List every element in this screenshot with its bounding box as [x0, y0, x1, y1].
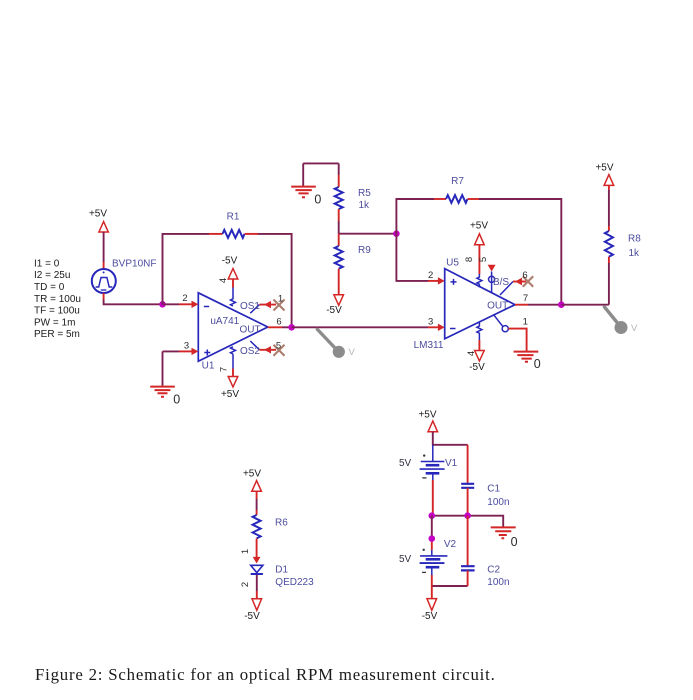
svg-text:1k: 1k	[629, 248, 641, 259]
svg-text:R6: R6	[275, 518, 288, 529]
svg-text:-5V: -5V	[222, 255, 238, 266]
svg-text:TD = 0: TD = 0	[34, 282, 65, 293]
resistor R7	[434, 176, 479, 203]
U5 pin 8 lead	[477, 245, 482, 288]
svg-text:R9: R9	[358, 245, 371, 256]
svg-text:I1 = 0: I1 = 0	[34, 258, 60, 269]
caption	[35, 665, 496, 685]
svg-text:V2: V2	[444, 539, 457, 550]
battery V1 5V	[399, 445, 458, 480]
U5 pin 5 stub with marker	[488, 265, 496, 293]
svg-text:1: 1	[240, 549, 251, 554]
resistor R9	[335, 234, 372, 295]
svg-text:5V: 5V	[399, 458, 412, 469]
power -5V at D1	[244, 599, 261, 622]
wire node B down to U5 pin 2	[396, 234, 428, 281]
svg-text:V: V	[349, 347, 356, 358]
U5 pin 6 B/S lead	[500, 278, 526, 295]
power -5V at U5 pin 4	[469, 351, 485, 374]
no-connect X at U5 pin 6	[523, 276, 533, 286]
svg-text:+5V: +5V	[243, 468, 261, 479]
junction node at V2 plus	[429, 535, 436, 542]
pulse parameter text block	[34, 258, 81, 340]
wire +5V to V1 and C1 branch	[433, 432, 468, 445]
svg-text:100n: 100n	[487, 577, 509, 588]
svg-text:5: 5	[276, 340, 281, 351]
svg-text:7: 7	[523, 293, 528, 304]
power -5V at V2	[422, 586, 438, 622]
svg-text:TF = 100u: TF = 100u	[34, 306, 80, 317]
svg-text:+5V: +5V	[595, 162, 613, 173]
wire divider node to R7 node	[339, 233, 397, 235]
voltage probe V (on U1 output)	[316, 328, 356, 358]
power +5V at U5 pin 8	[470, 221, 488, 245]
wire ground to R5	[303, 162, 339, 164]
svg-text:R5: R5	[358, 188, 371, 199]
svg-text:7: 7	[219, 367, 230, 372]
svg-text:OS1: OS1	[240, 301, 260, 312]
svg-text:0: 0	[511, 535, 518, 549]
svg-text:-5V: -5V	[244, 611, 260, 622]
svg-text:OS2: OS2	[240, 346, 260, 357]
svg-text:OUT: OUT	[239, 324, 260, 335]
svg-text:-5V: -5V	[422, 611, 438, 622]
svg-text:5V: 5V	[399, 554, 412, 565]
junction node OUT2	[558, 301, 565, 308]
wire node B up to R7	[396, 199, 434, 234]
wire OUT2 node to R8	[561, 304, 609, 306]
svg-text:BVP10NF: BVP10NF	[112, 258, 156, 269]
battery V2 5V	[399, 539, 457, 575]
junction mid node 2	[464, 512, 471, 519]
ground 0 at U5 pin 1	[514, 352, 541, 372]
svg-text:I2 = 25u: I2 = 25u	[34, 270, 70, 281]
svg-text:LM311: LM311	[414, 340, 444, 351]
svg-text:6: 6	[276, 316, 281, 327]
svg-text:+5V: +5V	[89, 209, 107, 220]
svg-text:C1: C1	[487, 484, 500, 495]
capacitor C2 100n	[461, 516, 510, 588]
svg-text:U1: U1	[202, 361, 215, 372]
U1 pin OS1 lead	[250, 301, 276, 313]
resistor R5 1k	[335, 163, 372, 233]
svg-text:3: 3	[184, 341, 189, 352]
wire source to node A	[104, 293, 163, 304]
power -5V at R9	[326, 295, 343, 316]
wire ground to U1 pin 3	[163, 348, 199, 355]
wire node A to U1 pin 2	[163, 301, 199, 308]
svg-text:TR = 100u: TR = 100u	[34, 294, 81, 305]
U1 pin OS2 lead	[250, 341, 276, 353]
U1 pin 6 OUT lead	[268, 326, 292, 328]
svg-text:8: 8	[464, 257, 475, 262]
svg-text:QED223: QED223	[275, 577, 314, 588]
comparator U5 LM311 body	[414, 258, 515, 351]
svg-text:-5V: -5V	[469, 362, 485, 373]
svg-text:R1: R1	[227, 212, 240, 223]
svg-text:4: 4	[218, 278, 229, 283]
junction marker at D1 anode	[253, 557, 261, 564]
svg-text:2: 2	[428, 270, 433, 281]
svg-text:OUT: OUT	[487, 301, 508, 312]
wire V2 to bottom rail	[432, 575, 468, 586]
svg-text:2: 2	[182, 293, 187, 304]
power +5V at R8	[595, 162, 613, 185]
svg-text:PER = 5m: PER = 5m	[34, 329, 80, 340]
svg-text:3: 3	[428, 316, 433, 327]
svg-text:-5V: -5V	[326, 305, 342, 316]
resistor R6	[253, 491, 289, 557]
wire +5V to source I1	[103, 232, 105, 270]
svg-text:U5: U5	[446, 258, 459, 269]
wire R7 to OUT2 node	[479, 199, 561, 305]
junction mid node 1	[429, 512, 436, 519]
junction node B	[393, 230, 400, 237]
U5 pin 1 G lead	[494, 315, 527, 351]
U5 pin 3 lead	[428, 324, 445, 331]
svg-text:D1: D1	[275, 565, 288, 576]
U5 pin 2 lead	[428, 277, 445, 284]
svg-text:+5V: +5V	[470, 221, 488, 232]
svg-text:0: 0	[534, 357, 541, 371]
ground 0 at U1 pin 3	[150, 351, 180, 406]
svg-text:0: 0	[173, 392, 180, 406]
wire R1 to OUT node of U1	[258, 234, 292, 327]
power +5V at V1	[418, 410, 437, 432]
no-connect X at U1 pin 5	[274, 345, 285, 356]
svg-text:+5V: +5V	[221, 389, 239, 400]
wire OUT1 node to U5 pin 3	[292, 326, 428, 328]
op-amp U1 uA741 body	[198, 293, 267, 372]
svg-text:2: 2	[240, 582, 251, 587]
svg-text:100n: 100n	[487, 497, 509, 508]
svg-text:V1: V1	[445, 458, 458, 469]
diode D1 QED223	[251, 565, 314, 588]
svg-text:V: V	[631, 323, 638, 334]
U1 pin 4 lead	[231, 279, 236, 306]
svg-text:R7: R7	[451, 176, 464, 187]
svg-text:1: 1	[278, 293, 283, 304]
power +5V at R6	[243, 468, 261, 491]
svg-text:R8: R8	[628, 234, 641, 245]
ground 0 at mid rail	[491, 527, 518, 549]
svg-text:1k: 1k	[359, 200, 371, 211]
current source I1 BVP10NF	[92, 269, 116, 293]
svg-text:uA741: uA741	[210, 316, 239, 327]
voltage probe V (on U5 output)	[603, 306, 638, 334]
svg-text:B/S: B/S	[493, 277, 509, 288]
ground 0 at R5 top	[291, 163, 321, 206]
U1 pin 7 lead	[231, 347, 236, 377]
wire mid node to V2	[431, 516, 433, 538]
resistor R1	[209, 212, 258, 238]
power +5V at U1 pin 7	[221, 377, 239, 400]
capacitor C1 100n	[461, 445, 509, 516]
power +5V source branch	[89, 209, 108, 233]
svg-text:C2: C2	[487, 565, 500, 576]
wire V1 to mid node	[432, 480, 434, 516]
wire mid rail	[432, 516, 503, 527]
svg-text:0: 0	[314, 192, 321, 206]
junction node A	[159, 301, 166, 308]
svg-text:1: 1	[523, 316, 528, 327]
resistor R8 1k	[605, 185, 641, 304]
U5 pin 7 OUT lead	[515, 304, 561, 306]
power -5V at U1 pin 4	[222, 255, 238, 279]
wire D1 to -5V	[256, 575, 258, 599]
wire node A up to R1	[163, 234, 210, 304]
svg-text:+5V: +5V	[418, 410, 436, 421]
U5 pin 4 lead	[477, 322, 482, 350]
svg-text:PW = 1m: PW = 1m	[34, 317, 75, 328]
svg-text:5: 5	[478, 257, 489, 262]
svg-text:6: 6	[522, 270, 527, 281]
no-connect X at U1 pin 1	[274, 300, 285, 311]
junction node OUT1	[288, 324, 295, 331]
